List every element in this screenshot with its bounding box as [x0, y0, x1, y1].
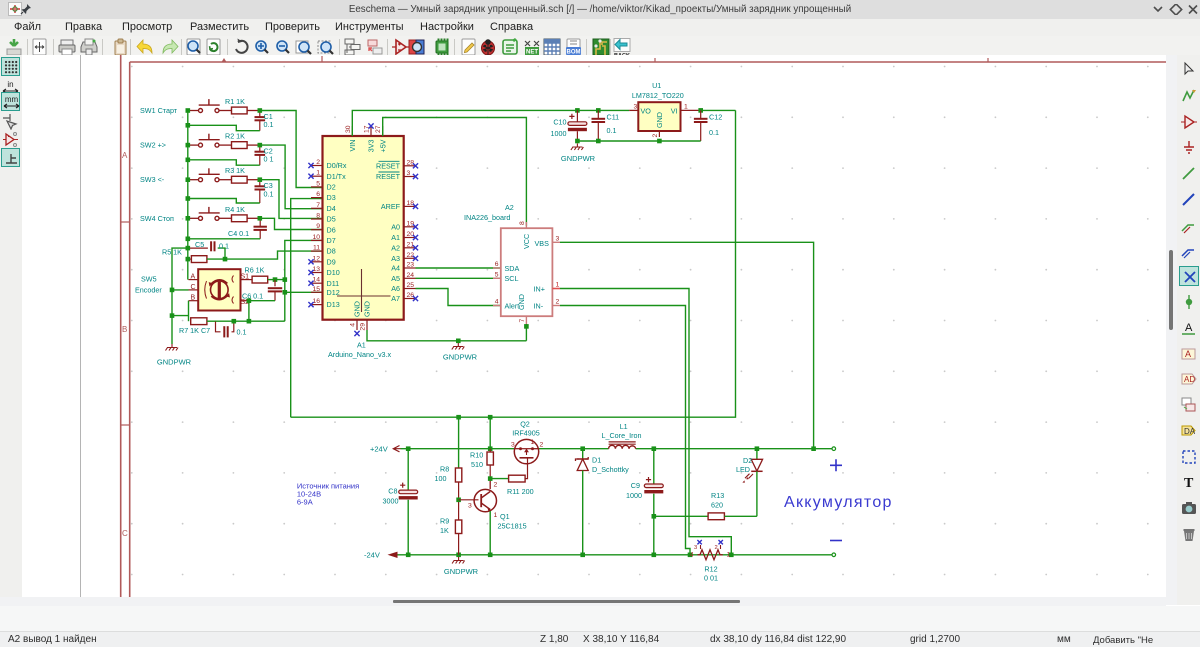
resistor R1 1K — [225, 97, 260, 114]
svg-text:A: A — [1185, 322, 1193, 334]
resistor R9 1K — [440, 500, 462, 555]
wire R8/R9 to Q1 base — [456, 482, 478, 510]
svg-text:3V3: 3V3 — [367, 140, 376, 153]
wire cap return to bus — [186, 108, 260, 131]
battery minus terminal — [830, 540, 842, 542]
svg-text:0.1: 0.1 — [607, 126, 617, 135]
sheet frame border — [121, 55, 1166, 597]
resistor R10 510 — [470, 449, 493, 479]
svg-text:1K: 1K — [440, 526, 449, 535]
svg-text:D4: D4 — [327, 204, 336, 213]
wire S2/C6 node — [247, 298, 275, 321]
svg-text:A6: A6 — [391, 284, 400, 293]
svg-text:A1: A1 — [357, 341, 366, 350]
resistor R3 1K — [225, 166, 260, 183]
svg-text:19: 19 — [407, 220, 415, 227]
capacitor C11 0.1 — [592, 110, 620, 141]
wire IN- sense — [560, 306, 690, 555]
svg-text:B: B — [191, 295, 196, 302]
wire A6 to Alert — [416, 289, 501, 306]
svg-text:20: 20 — [407, 231, 415, 238]
resistor R8 100 — [435, 417, 462, 483]
svg-text:R3 1K: R3 1K — [225, 166, 245, 175]
svg-text:6: 6 — [495, 261, 499, 268]
svg-text:1: 1 — [684, 104, 688, 111]
svg-text:VO: VO — [641, 107, 652, 116]
svg-text:24: 24 — [407, 272, 415, 279]
svg-text:VI: VI — [671, 107, 678, 116]
svg-text:13: 13 — [312, 266, 320, 273]
svg-text:1: 1 — [531, 439, 535, 446]
svg-text:A4: A4 — [391, 264, 400, 273]
svg-text:D11: D11 — [327, 279, 340, 288]
battery plus terminal — [830, 459, 842, 471]
capacitor C1 — [255, 111, 274, 131]
wire cap return to bus — [186, 177, 260, 203]
rotary encoder SW5 — [135, 269, 249, 310]
svg-text:Arduino_Nano_v3.x: Arduino_Nano_v3.x — [328, 350, 392, 359]
wire INA gnd — [524, 324, 529, 341]
svg-text:D5: D5 — [327, 215, 336, 224]
svg-text:C5: C5 — [195, 240, 204, 249]
svg-text:SW3 <-: SW3 <- — [140, 175, 165, 184]
svg-text:B: B — [122, 325, 127, 334]
svg-text:IRF4905: IRF4905 — [512, 429, 540, 438]
capacitor C3 — [255, 180, 274, 203]
svg-text:D1: D1 — [592, 456, 601, 465]
wire +24V rail — [401, 446, 836, 451]
diode D2 LED — [736, 449, 763, 517]
svg-text:12: 12 — [312, 255, 320, 262]
svg-text:1: 1 — [727, 552, 731, 559]
svg-text:AD: AD — [1184, 375, 1195, 384]
svg-text:SCL: SCL — [505, 274, 519, 283]
svg-text:21: 21 — [407, 241, 415, 248]
svg-text:23: 23 — [407, 262, 415, 269]
svg-text:GNDPWR: GNDPWR — [443, 353, 478, 362]
svg-text:14: 14 — [312, 277, 320, 284]
capacitor C9 1000 — [626, 449, 663, 517]
svg-text:3: 3 — [407, 170, 411, 177]
svg-text:VCC: VCC — [522, 234, 531, 249]
svg-text:D8: D8 — [327, 247, 336, 256]
capacitor C6 0.1 — [242, 280, 282, 301]
svg-text:RESET: RESET — [376, 172, 401, 181]
svg-text:R4 1K: R4 1K — [225, 205, 245, 214]
wire -24V rail — [398, 553, 836, 558]
svg-text:26: 26 — [407, 292, 415, 299]
wire R7/C7 to encoder switch net — [216, 319, 285, 324]
bottom panel — [0, 606, 1200, 631]
wire regulator ground rail — [575, 139, 701, 144]
svg-text:6: 6 — [316, 191, 320, 198]
svg-text:30: 30 — [345, 125, 352, 133]
resistor R7 1K — [179, 301, 216, 335]
svg-text:17: 17 — [364, 125, 371, 133]
svg-text:A2: A2 — [391, 243, 400, 252]
svg-text:D3: D3 — [327, 193, 336, 202]
svg-text:16: 16 — [312, 298, 320, 305]
svg-text:4: 4 — [690, 552, 694, 559]
text источник питания — [297, 482, 359, 507]
svg-text:2: 2 — [652, 134, 659, 138]
svg-text:R8: R8 — [440, 465, 449, 474]
svg-text:D12: D12 — [327, 288, 340, 297]
svg-text:C12: C12 — [709, 113, 722, 122]
switch SW4 Стоп — [140, 207, 231, 223]
svg-text:U1: U1 — [652, 81, 661, 90]
resistor R13 620 — [654, 491, 757, 520]
toolbar — [0, 36, 1200, 56]
svg-text:3: 3 — [634, 104, 638, 111]
svg-text:R1 1K: R1 1K — [225, 97, 245, 106]
svg-text:9: 9 — [316, 223, 320, 230]
switch SW2 +> — [140, 134, 231, 150]
svg-text:D_Schottky: D_Schottky — [592, 465, 629, 474]
svg-text:3: 3 — [556, 236, 560, 243]
wire cap return to bus — [186, 143, 260, 165]
wire switch common bus — [187, 111, 189, 260]
wire net to D3 — [291, 199, 323, 418]
power flag GNDPWR (arduino) — [443, 343, 478, 362]
wire +5V to INA vcc — [383, 118, 527, 226]
grid dots — [131, 66, 1149, 576]
inductor L1 L_Core_Iron — [602, 422, 642, 449]
switch SW3 <- — [140, 168, 231, 184]
svg-text:4: 4 — [495, 299, 499, 306]
svg-text:22: 22 — [407, 252, 415, 259]
h scrollbar — [0, 597, 1166, 606]
svg-text:R9: R9 — [440, 517, 449, 526]
svg-text:1: 1 — [494, 512, 498, 519]
wire S1 debounce down — [283, 277, 288, 321]
svg-text:AREF: AREF — [381, 202, 401, 211]
wire SW3 to D5 — [258, 177, 323, 218]
svg-text:29: 29 — [360, 323, 367, 331]
wire +12V rail — [575, 108, 735, 113]
svg-text:D1/Tx: D1/Tx — [327, 172, 347, 181]
svg-text:28: 28 — [407, 159, 415, 166]
svg-text:C9: C9 — [631, 481, 640, 490]
wire A4 to SDA — [416, 267, 501, 269]
svg-text:A1: A1 — [391, 233, 400, 242]
svg-text:100: 100 — [435, 474, 447, 483]
svg-text:1000: 1000 — [551, 129, 567, 138]
svg-text:GNDPWR: GNDPWR — [444, 567, 479, 576]
svg-text:GND: GND — [363, 301, 372, 317]
resistor R6 1K — [245, 265, 278, 283]
wire VIN to +12V rail — [352, 110, 629, 136]
capacitor C5 0.1 — [188, 240, 229, 259]
capacitor C2 — [255, 145, 274, 165]
wire bus to encoder A — [186, 257, 191, 280]
svg-text:3: 3 — [468, 503, 472, 510]
svg-text:A7: A7 — [391, 294, 400, 303]
svg-text:C: C — [122, 529, 128, 538]
svg-text:0.1: 0.1 — [709, 128, 719, 137]
resistor R2 1K — [225, 132, 260, 149]
svg-text:in: in — [7, 80, 13, 89]
transistor Q2 IRF4905 — [511, 419, 544, 464]
capacitor C4 0.1 — [228, 218, 267, 239]
svg-text:INA226_board: INA226_board — [464, 213, 510, 222]
svg-text:2: 2 — [316, 159, 320, 166]
wire A5 to SCL — [416, 277, 501, 279]
svg-text:Аккумулятор: Аккумулятор — [784, 494, 893, 511]
svg-text:mm: mm — [5, 95, 19, 104]
svg-text:3000: 3000 — [383, 497, 399, 506]
svg-text:Encoder: Encoder — [135, 286, 162, 295]
svg-text:R10: R10 — [470, 451, 483, 460]
svg-text:SW1 Старт: SW1 Старт — [140, 106, 178, 115]
wire SW4 to D6 — [258, 216, 323, 230]
svg-text:1000: 1000 — [626, 491, 642, 500]
svg-text:5: 5 — [495, 271, 499, 278]
svg-text:SW5: SW5 — [141, 275, 157, 284]
svg-text:R11 200: R11 200 — [507, 487, 534, 496]
svg-text:25: 25 — [407, 282, 415, 289]
transistor Q1 — [474, 479, 527, 555]
svg-text:GNDPWR: GNDPWR — [157, 358, 192, 367]
mcu A1 Arduino_Nano_v3.x — [308, 123, 418, 358]
svg-text:RESET: RESET — [376, 161, 401, 170]
svg-text:R12: R12 — [704, 565, 717, 574]
svg-text:27: 27 — [375, 125, 382, 133]
svg-text:SW4 Стоп: SW4 Стоп — [140, 214, 174, 223]
svg-text:1: 1 — [556, 282, 560, 289]
power label +24V — [370, 444, 401, 453]
shunt resistor R12 0.01 — [690, 540, 731, 583]
svg-text:SDA: SDA — [505, 264, 520, 273]
svg-text:C8: C8 — [388, 486, 397, 495]
regulator U1 LM7812_TO220 — [632, 81, 688, 138]
svg-text:A: A — [1185, 349, 1191, 359]
svg-text:620: 620 — [711, 501, 723, 510]
resistor R11 200 — [488, 464, 534, 496]
resistor R5 1K — [162, 246, 227, 263]
svg-text:5: 5 — [316, 180, 320, 187]
svg-text:2: 2 — [540, 442, 544, 449]
svg-text:A0: A0 — [391, 222, 400, 231]
capacitor C12 0.1 — [694, 110, 722, 141]
power flag GNDPWR (power) — [444, 557, 479, 576]
svg-text:GND: GND — [353, 301, 362, 317]
svg-text:GND: GND — [517, 294, 526, 310]
left toolbar — [0, 55, 22, 605]
diode D1 D_Schottky — [576, 449, 630, 555]
svg-text:R6 1K: R6 1K — [245, 265, 265, 274]
canvas — [22, 55, 1166, 597]
svg-text:3: 3 — [511, 442, 515, 449]
frame row letters — [122, 151, 128, 538]
svg-text:15: 15 — [312, 286, 320, 293]
svg-text:D13: D13 — [327, 300, 340, 309]
capacitor C8 3000 — [383, 449, 418, 555]
title bar — [0, 0, 1200, 20]
power flag GNDPWR (encoder) — [157, 344, 192, 367]
svg-text:8: 8 — [316, 213, 320, 220]
svg-text:VBS: VBS — [535, 239, 550, 248]
wire SW1 to D2 — [258, 108, 323, 187]
menu bar — [0, 19, 1200, 36]
svg-text:A5: A5 — [391, 274, 400, 283]
svg-text:T: T — [1184, 476, 1194, 491]
svg-text:Q1: Q1 — [500, 512, 510, 521]
right toolbar — [1177, 55, 1200, 605]
svg-text:Q2: Q2 — [520, 419, 530, 428]
svg-text:LED: LED — [736, 465, 750, 474]
wire VI feed from +24V — [291, 110, 736, 417]
svg-text:C10: C10 — [553, 118, 566, 127]
power label -24V — [364, 551, 398, 560]
svg-text:C11: C11 — [607, 113, 620, 122]
svg-text:0 1: 0 1 — [264, 155, 274, 164]
v scrollbar — [1166, 55, 1177, 605]
svg-text:3: 3 — [694, 545, 697, 551]
svg-text:GND: GND — [655, 112, 664, 128]
wire encoder node to D12 — [283, 290, 323, 295]
svg-text:D7: D7 — [327, 236, 336, 245]
svg-text:25C1815: 25C1815 — [498, 522, 527, 531]
svg-text:4: 4 — [350, 323, 357, 327]
wire VBS to +24V — [560, 242, 814, 448]
svg-text:R7 1K C7: R7 1K C7 — [179, 326, 210, 335]
svg-text:D9: D9 — [327, 257, 336, 266]
svg-text:+24V: +24V — [370, 444, 388, 453]
switch SW1 Старт — [140, 99, 231, 115]
svg-text:1: 1 — [316, 170, 320, 177]
svg-text:D2: D2 — [743, 456, 752, 465]
svg-text:0.1: 0.1 — [237, 328, 247, 337]
power flag GNDPWR (regulator) — [561, 144, 596, 164]
text Аккумулятор — [784, 494, 893, 511]
svg-text:2: 2 — [556, 299, 560, 306]
svg-text:18: 18 — [407, 200, 415, 207]
wire SW2 to D4 — [258, 143, 323, 209]
svg-text:R2 1K: R2 1K — [225, 132, 245, 141]
wire R5/C5 to D8 — [225, 251, 323, 259]
status bar — [0, 631, 1200, 647]
svg-text:A: A — [122, 151, 128, 160]
svg-text:2: 2 — [715, 545, 718, 551]
svg-text:A: A — [191, 274, 196, 281]
svg-text:R13: R13 — [711, 491, 724, 500]
svg-text:IN-: IN- — [534, 301, 544, 310]
svg-text:A3: A3 — [391, 254, 400, 263]
svg-text:DA: DA — [1184, 427, 1196, 436]
svg-text:A2: A2 — [505, 203, 514, 212]
wire C4 return to bus — [186, 216, 261, 241]
svg-text:C6 0.1: C6 0.1 — [242, 291, 263, 300]
svg-text:+5V: +5V — [378, 139, 387, 152]
svg-text:C: C — [191, 284, 196, 291]
svg-text:SW2 +>: SW2 +> — [140, 141, 166, 150]
svg-text:D10: D10 — [327, 268, 340, 277]
resistor R4 1K — [225, 205, 260, 222]
page edge — [80, 55, 82, 597]
sensor A2 INA226_board (highlighted) — [464, 203, 560, 324]
svg-text:LM7812_TO220: LM7812_TO220 — [632, 91, 684, 100]
svg-text:0 01: 0 01 — [704, 574, 718, 583]
svg-text:D6: D6 — [327, 225, 336, 234]
svg-text:8: 8 — [519, 221, 526, 225]
svg-text:510: 510 — [471, 460, 483, 469]
svg-text:7: 7 — [316, 202, 320, 209]
svg-text:10: 10 — [312, 234, 320, 241]
capacitor C10 1000 — [551, 110, 587, 141]
svg-text:GNDPWR: GNDPWR — [561, 154, 596, 163]
svg-text:6-9А: 6-9А — [297, 497, 313, 506]
svg-text:0.1: 0.1 — [264, 189, 274, 198]
svg-text:L_Core_Iron: L_Core_Iron — [602, 431, 642, 440]
svg-text:2: 2 — [494, 482, 498, 489]
ground branch line — [170, 248, 189, 344]
wire GND to GNDPWR — [367, 330, 526, 343]
wire IN+ sense — [560, 289, 731, 555]
svg-text:C4 0.1: C4 0.1 — [228, 229, 249, 238]
wire C9 to -24V — [652, 514, 657, 555]
svg-text:VIN: VIN — [348, 140, 357, 152]
wire R6 to D7 — [275, 240, 323, 279]
svg-text:0 1: 0 1 — [219, 242, 229, 251]
svg-text:-24V: -24V — [364, 551, 380, 560]
svg-text:11: 11 — [313, 245, 320, 252]
svg-text:D2: D2 — [327, 183, 336, 192]
wire +24V feed vertical — [456, 415, 492, 449]
svg-text:S1: S1 — [241, 273, 250, 280]
svg-text:0.1: 0.1 — [264, 120, 274, 129]
svg-text:7: 7 — [519, 319, 526, 323]
svg-text:L1: L1 — [620, 422, 628, 431]
svg-text:D0/Rx: D0/Rx — [327, 161, 347, 170]
capacitor C7 0.1 — [216, 321, 247, 337]
svg-text:IN+: IN+ — [534, 284, 545, 293]
